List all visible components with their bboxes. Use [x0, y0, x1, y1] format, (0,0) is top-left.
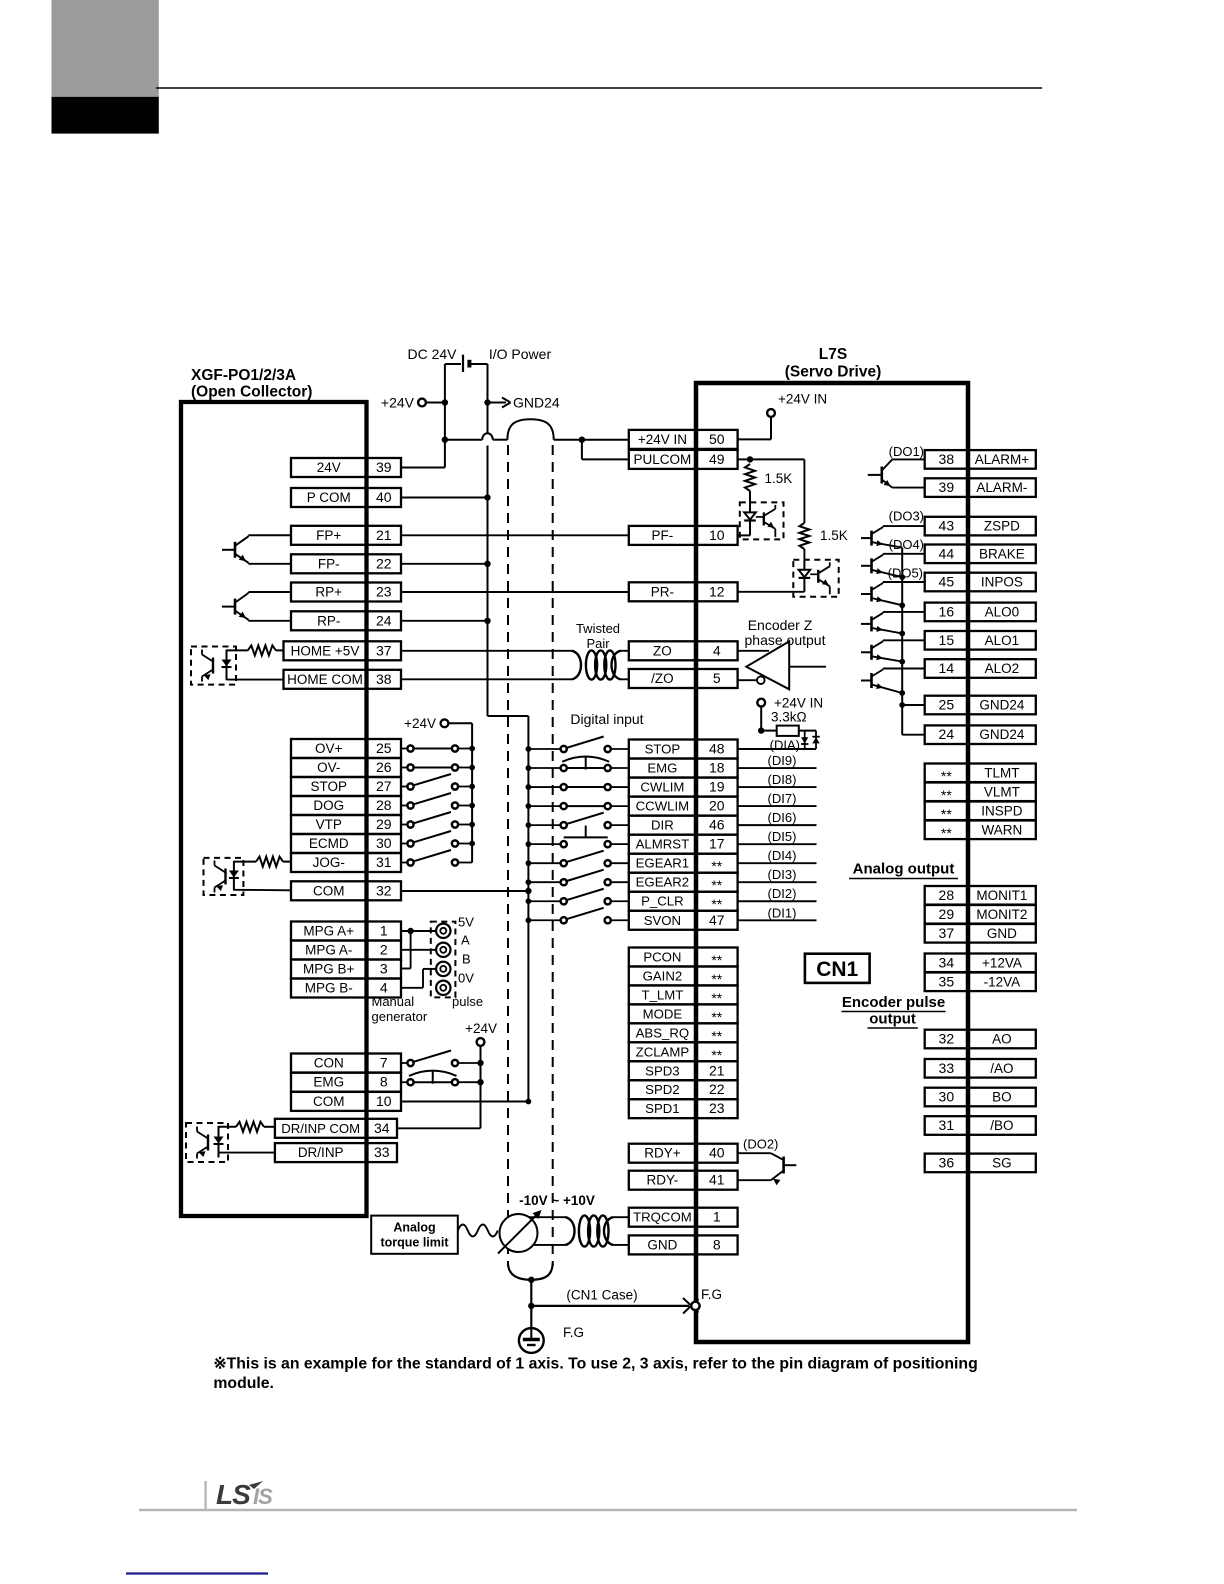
svg-text:40: 40 [376, 489, 392, 505]
svg-text:XGF-PO1/2/3A: XGF-PO1/2/3A [191, 367, 296, 384]
svg-text:INPOS: INPOS [981, 575, 1023, 590]
svg-text:36: 36 [939, 1154, 955, 1170]
svg-text:MODE: MODE [643, 1006, 683, 1021]
svg-text:10: 10 [709, 527, 725, 543]
svg-text:TRQCOM: TRQCOM [633, 1210, 692, 1225]
svg-text:torque limit: torque limit [380, 1236, 449, 1250]
svg-text:ECMD: ECMD [309, 836, 349, 851]
svg-text:21: 21 [709, 1062, 725, 1078]
svg-text:RP-: RP- [317, 613, 340, 628]
svg-text:+24V IN: +24V IN [774, 696, 823, 711]
svg-text:P COM: P COM [307, 490, 351, 505]
svg-text:39: 39 [376, 459, 392, 475]
svg-text:30: 30 [939, 1089, 955, 1105]
svg-text:L7S: L7S [819, 346, 847, 363]
svg-text:LS: LS [216, 1479, 251, 1510]
svg-text:(CN1 Case): (CN1 Case) [566, 1288, 637, 1303]
svg-text:※This is an example for the st: ※This is an example for the standard of … [213, 1356, 977, 1373]
svg-text:1.5K: 1.5K [765, 471, 793, 486]
svg-text:F.G: F.G [563, 1325, 584, 1340]
svg-text:+12VA: +12VA [982, 955, 1022, 970]
svg-text:30: 30 [376, 835, 392, 851]
svg-text:FP+: FP+ [316, 528, 341, 543]
svg-text:generator: generator [372, 1009, 428, 1024]
svg-text:COM: COM [313, 883, 345, 898]
svg-text:(DI9): (DI9) [768, 753, 797, 768]
svg-text:BRAKE: BRAKE [979, 546, 1025, 561]
svg-text:GND24: GND24 [979, 698, 1025, 713]
svg-text:TLMT: TLMT [984, 765, 1019, 780]
svg-text:(DI1): (DI1) [768, 905, 797, 920]
svg-text:50: 50 [709, 431, 725, 447]
svg-text:0V: 0V [458, 971, 474, 986]
svg-text:29: 29 [939, 906, 955, 922]
svg-text:DOG: DOG [313, 798, 344, 813]
svg-text:40: 40 [709, 1145, 725, 1161]
svg-text:35: 35 [939, 973, 955, 989]
svg-text:CN1: CN1 [816, 958, 858, 981]
svg-text:8: 8 [713, 1236, 721, 1252]
svg-text:1.5K: 1.5K [820, 528, 848, 543]
svg-text:(DI7): (DI7) [768, 791, 797, 806]
svg-text:44: 44 [939, 545, 955, 561]
svg-text:DR/INP: DR/INP [298, 1145, 344, 1160]
svg-text:26: 26 [376, 759, 392, 775]
svg-text:BO: BO [992, 1090, 1012, 1105]
svg-text:CON: CON [314, 1056, 344, 1071]
svg-text:41: 41 [709, 1172, 725, 1188]
svg-text:phase output: phase output [745, 632, 826, 648]
svg-text:32: 32 [376, 882, 392, 898]
svg-text:INSPD: INSPD [981, 803, 1023, 818]
svg-text:ALARM-: ALARM- [976, 480, 1027, 495]
svg-text:ABS_RQ: ABS_RQ [636, 1025, 690, 1040]
svg-text:VTP: VTP [316, 817, 342, 832]
svg-text:COM: COM [313, 1094, 345, 1109]
svg-text:GND24: GND24 [513, 395, 560, 411]
svg-text:ALO2: ALO2 [985, 661, 1020, 676]
svg-text:DIR: DIR [651, 818, 674, 833]
svg-text:(DO4): (DO4) [889, 537, 924, 552]
svg-text:27: 27 [376, 778, 392, 794]
svg-text:45: 45 [939, 574, 955, 590]
svg-text:(Servo Drive): (Servo Drive) [785, 364, 881, 381]
svg-text:EMG: EMG [647, 761, 677, 776]
svg-text:-10V ~ +10V: -10V ~ +10V [519, 1193, 595, 1208]
svg-text:1: 1 [380, 923, 388, 939]
svg-text:Encoder Z: Encoder Z [748, 617, 813, 633]
svg-text:B: B [462, 952, 471, 967]
svg-text:3: 3 [380, 961, 388, 977]
svg-text:EGEAR2: EGEAR2 [636, 875, 690, 890]
svg-text:STOP: STOP [645, 742, 681, 757]
svg-text:GND: GND [647, 1237, 677, 1252]
svg-text:(DO1): (DO1) [889, 444, 924, 459]
svg-text:+24V IN: +24V IN [638, 432, 687, 447]
svg-text:OV+: OV+ [315, 741, 343, 756]
svg-text:AO: AO [992, 1032, 1012, 1047]
svg-text:39: 39 [939, 479, 955, 495]
svg-text:**: ** [941, 825, 952, 841]
svg-text:EGEAR1: EGEAR1 [636, 856, 690, 871]
svg-text:Analog: Analog [393, 1221, 435, 1235]
svg-text:34: 34 [374, 1120, 390, 1136]
svg-text:HOME COM: HOME COM [287, 672, 363, 687]
svg-text:(DI3): (DI3) [768, 867, 797, 882]
svg-text:1: 1 [713, 1209, 721, 1225]
svg-text:DR/INP COM: DR/INP COM [281, 1121, 360, 1136]
svg-text:(Open Collector): (Open Collector) [191, 384, 312, 401]
svg-text:T_LMT: T_LMT [642, 987, 684, 1002]
svg-text:PCON: PCON [643, 950, 681, 965]
svg-text:/ZO: /ZO [651, 671, 674, 686]
svg-text:31: 31 [939, 1117, 955, 1133]
svg-text:F.G: F.G [701, 1287, 722, 1302]
svg-text:JOG-: JOG- [313, 855, 345, 870]
svg-text:49: 49 [709, 451, 725, 467]
svg-text:/BO: /BO [990, 1118, 1013, 1133]
svg-text:SPD3: SPD3 [645, 1063, 679, 1078]
svg-text:34: 34 [939, 954, 955, 970]
svg-text:33: 33 [939, 1060, 955, 1076]
svg-text:10: 10 [376, 1093, 392, 1109]
svg-text:FP-: FP- [318, 556, 340, 571]
svg-text:22: 22 [709, 1081, 725, 1097]
svg-text:RDY-: RDY- [647, 1173, 679, 1188]
svg-text:-12VA: -12VA [984, 974, 1021, 989]
svg-text:24: 24 [939, 726, 955, 742]
svg-text:ZCLAMP: ZCLAMP [636, 1044, 690, 1059]
svg-text:(DI5): (DI5) [768, 829, 797, 844]
svg-text:46: 46 [709, 817, 725, 833]
svg-text:RP+: RP+ [315, 585, 342, 600]
svg-text:MONIT1: MONIT1 [976, 888, 1027, 903]
svg-text:Twisted: Twisted [576, 621, 620, 636]
svg-text:2: 2 [380, 942, 388, 958]
svg-text:ALO0: ALO0 [985, 604, 1020, 619]
svg-text:+24V: +24V [381, 395, 415, 411]
svg-text:24: 24 [376, 612, 392, 628]
svg-text:(DIA): (DIA) [770, 738, 800, 753]
svg-text:31: 31 [376, 854, 392, 870]
svg-text:32: 32 [939, 1031, 955, 1047]
svg-text:WARN: WARN [982, 822, 1023, 837]
svg-text:43: 43 [939, 518, 955, 534]
svg-text:28: 28 [376, 797, 392, 813]
svg-text:pulse: pulse [452, 994, 483, 1009]
svg-text:VLMT: VLMT [984, 784, 1020, 799]
svg-text:47: 47 [709, 912, 725, 928]
svg-text:25: 25 [939, 697, 955, 713]
svg-text:Manual: Manual [372, 994, 415, 1009]
svg-text:19: 19 [709, 779, 725, 795]
svg-text:38: 38 [939, 451, 955, 467]
svg-text:MPG B+: MPG B+ [303, 962, 355, 977]
svg-text:DC 24V: DC 24V [407, 346, 457, 362]
svg-text:(DI6): (DI6) [768, 810, 797, 825]
svg-text:ALMRST: ALMRST [636, 837, 690, 852]
svg-text:IS: IS [253, 1484, 273, 1509]
svg-text:SPD2: SPD2 [645, 1082, 679, 1097]
svg-text:HOME +5V: HOME +5V [291, 643, 360, 658]
svg-text:25: 25 [376, 740, 392, 756]
svg-text:GND24: GND24 [979, 727, 1025, 742]
svg-text:CWLIM: CWLIM [640, 780, 684, 795]
svg-text:Encoder pulse: Encoder pulse [842, 994, 945, 1011]
svg-text:Analog output: Analog output [853, 861, 955, 878]
svg-text:PR-: PR- [651, 584, 674, 599]
svg-text:A: A [461, 933, 470, 948]
svg-text:CCWLIM: CCWLIM [636, 799, 689, 814]
svg-text:38: 38 [376, 671, 392, 687]
svg-text:48: 48 [709, 741, 725, 757]
svg-text:21: 21 [376, 527, 392, 543]
svg-text:17: 17 [709, 836, 725, 852]
svg-text:37: 37 [939, 925, 955, 941]
svg-text:OV-: OV- [317, 760, 340, 775]
svg-text:(DO5): (DO5) [888, 566, 923, 581]
svg-text:33: 33 [374, 1144, 390, 1160]
svg-text:(DO2): (DO2) [743, 1137, 778, 1152]
svg-text:ZSPD: ZSPD [984, 519, 1020, 534]
svg-text:I/O Power: I/O Power [489, 346, 552, 362]
svg-text:3.3kΩ: 3.3kΩ [771, 710, 807, 725]
svg-text:SVON: SVON [644, 913, 681, 928]
svg-text:ALARM+: ALARM+ [975, 452, 1030, 467]
svg-text:15: 15 [939, 632, 955, 648]
svg-text:(DI4): (DI4) [768, 848, 797, 863]
svg-text:SG: SG [992, 1155, 1012, 1170]
svg-text:STOP: STOP [310, 779, 347, 794]
svg-text:RDY+: RDY+ [644, 1146, 681, 1161]
svg-text:Digital input: Digital input [570, 711, 643, 727]
svg-text:MPG B-: MPG B- [305, 981, 353, 996]
svg-text:18: 18 [709, 760, 725, 776]
svg-text:PF-: PF- [652, 528, 674, 543]
svg-text:12: 12 [709, 583, 725, 599]
svg-text:22: 22 [376, 555, 392, 571]
svg-text:/AO: /AO [990, 1061, 1013, 1076]
svg-text:24V: 24V [317, 460, 341, 475]
svg-text:(DI2): (DI2) [768, 886, 797, 901]
svg-text:29: 29 [376, 816, 392, 832]
svg-text:ALO1: ALO1 [985, 633, 1020, 648]
svg-text:37: 37 [376, 642, 392, 658]
svg-text:28: 28 [939, 887, 955, 903]
svg-text:MONIT2: MONIT2 [976, 907, 1027, 922]
svg-text:GND: GND [987, 926, 1017, 941]
svg-text:23: 23 [376, 584, 392, 600]
svg-text:ZO: ZO [653, 643, 672, 658]
svg-text:output: output [869, 1011, 916, 1028]
svg-text:GAIN2: GAIN2 [643, 968, 683, 983]
svg-text:(DI8): (DI8) [768, 772, 797, 787]
svg-text:MPG A+: MPG A+ [303, 924, 354, 939]
svg-text:+24V: +24V [465, 1021, 497, 1036]
svg-text:Pair: Pair [586, 636, 610, 651]
svg-text:P_CLR: P_CLR [641, 894, 684, 909]
svg-text:5V: 5V [458, 915, 474, 930]
svg-text:PULCOM: PULCOM [634, 452, 692, 467]
svg-text:14: 14 [939, 660, 955, 676]
svg-text:16: 16 [939, 603, 955, 619]
svg-text:SPD1: SPD1 [645, 1101, 679, 1116]
svg-text:5: 5 [713, 670, 721, 686]
svg-text:EMG: EMG [313, 1075, 344, 1090]
svg-text:4: 4 [713, 642, 721, 658]
svg-text:MPG A-: MPG A- [305, 943, 352, 958]
svg-text:20: 20 [709, 798, 725, 814]
svg-text:+24V: +24V [404, 716, 436, 731]
svg-text:8: 8 [380, 1074, 388, 1090]
svg-text:+24V IN: +24V IN [778, 392, 827, 407]
svg-text:7: 7 [380, 1055, 388, 1071]
svg-text:23: 23 [709, 1100, 725, 1116]
svg-text:(DO3): (DO3) [889, 509, 924, 524]
svg-text:module.: module. [213, 1375, 274, 1392]
